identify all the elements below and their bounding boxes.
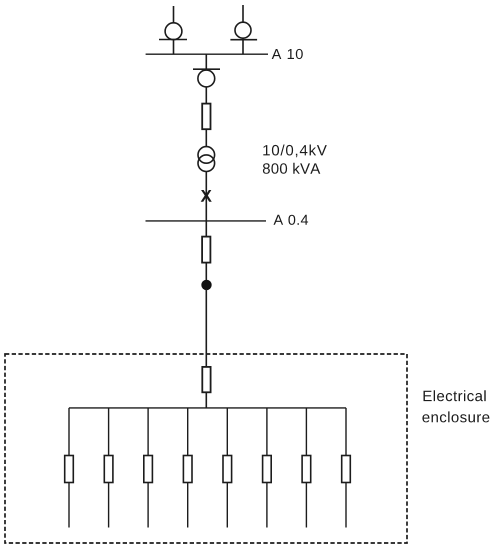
busbar A 0.4 xyxy=(146,220,267,222)
switch X (cross mark) xyxy=(201,190,212,202)
branch 5 fuse xyxy=(223,456,232,483)
wire: right incomer top lead xyxy=(242,5,244,22)
branch 7 wire lower xyxy=(305,483,307,528)
wire: left incomer to busbar A 10 xyxy=(173,40,175,55)
branch 2 wire upper xyxy=(108,408,110,456)
wire: transformer T1 through switch X to busbar A 0.4 xyxy=(205,172,207,221)
wire: left incomer top lead xyxy=(173,6,175,23)
branch 7 fuse xyxy=(302,456,311,483)
wire: right incomer to busbar A 10 xyxy=(242,38,244,54)
wire: breaker CB3 to fuse F1 xyxy=(205,87,207,104)
wire: fuse F3 to distribution bar xyxy=(205,392,207,408)
wire: fuse F2 to junction node xyxy=(205,263,207,281)
label: transformer rating 800 kVA xyxy=(263,163,320,174)
fuse F3 (enclosure main fuse) xyxy=(202,367,210,392)
branch 5 wire upper xyxy=(226,408,228,456)
branch 3 fuse xyxy=(144,456,153,483)
label: Electrical xyxy=(424,390,486,401)
wire: junction node into enclosure xyxy=(205,289,207,367)
busbar A 10 xyxy=(146,53,268,55)
enclosure boundary (dashed box) xyxy=(5,354,407,543)
branch 1 fuse xyxy=(65,456,74,483)
branch 8 fuse xyxy=(342,456,351,483)
branch 8 wire upper xyxy=(345,408,347,456)
branch 4 fuse xyxy=(183,456,192,483)
label: busbar name A 10 xyxy=(272,49,303,59)
label: transformer ratio 10/0,4kV xyxy=(263,145,327,158)
branch 1 wire upper xyxy=(68,408,70,456)
label: enclosure xyxy=(422,411,489,422)
circuit breaker CB2 (right incomer) xyxy=(230,22,257,40)
label: busbar name A 0.4 xyxy=(274,215,309,225)
branch 6 fuse xyxy=(263,456,272,483)
branch 4 wire upper xyxy=(187,408,189,456)
fuse F2 xyxy=(202,237,210,263)
branch 3 wire upper xyxy=(147,408,149,456)
fuse F1 xyxy=(202,104,210,130)
junction node (connection dot) xyxy=(201,280,211,290)
wire: busbar A 0.4 to fuse F2 xyxy=(205,221,207,237)
circuit breaker CB1 (left incomer) xyxy=(159,23,187,40)
wire: fuse F1 to transformer T1 xyxy=(205,129,207,147)
transformer T1 (two-winding) xyxy=(198,147,215,172)
branch 8 wire lower xyxy=(345,483,347,528)
branch 3 wire lower xyxy=(147,483,149,528)
circuit breaker CB3 (transformer feeder) xyxy=(193,69,220,87)
branch 6 wire lower xyxy=(266,483,268,528)
wire: busbar A 10 to breaker CB3 xyxy=(205,54,207,70)
branch 2 fuse xyxy=(104,456,113,483)
distribution busbar inside enclosure xyxy=(69,407,346,409)
branch 7 wire upper xyxy=(305,408,307,456)
branch 6 wire upper xyxy=(266,408,268,456)
branch 2 wire lower xyxy=(108,483,110,528)
branch 5 wire lower xyxy=(226,483,228,528)
branch 4 wire lower xyxy=(187,483,189,528)
branch 1 wire lower xyxy=(68,483,70,528)
